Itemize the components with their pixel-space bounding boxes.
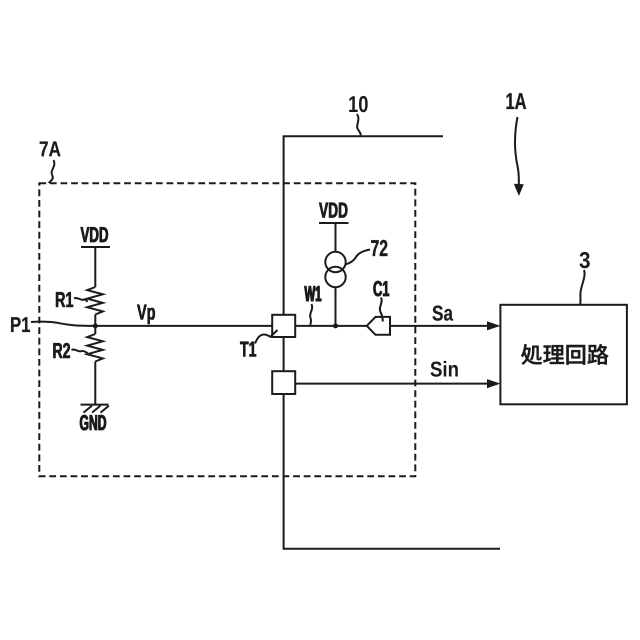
power symbol VDD (left): bar xyxy=(81,246,110,248)
current source 72: lower circle xyxy=(325,267,345,287)
label R1 xyxy=(56,292,73,307)
dashed block boundary 7A xyxy=(39,183,415,476)
ground symbol xyxy=(81,405,110,413)
label 7A xyxy=(40,142,61,157)
comparator C1 (pentagon tag) xyxy=(367,317,390,335)
label 1A xyxy=(507,93,527,109)
contact box (lower) xyxy=(272,371,295,394)
leader line for P1 xyxy=(31,322,95,326)
leader line for 72 xyxy=(346,250,370,265)
label 10 xyxy=(349,96,368,112)
sensor contact box T1 xyxy=(272,315,295,337)
junction dot node Vp xyxy=(93,323,98,328)
leader line for 10 xyxy=(357,114,361,135)
leader line for R2 xyxy=(72,349,88,353)
wire current source to node W1 xyxy=(335,287,337,326)
label VDD (left) xyxy=(81,227,108,242)
resistor R1 xyxy=(87,287,103,315)
label 72 xyxy=(371,240,387,256)
current source 72: upper circle xyxy=(325,252,345,272)
leader line for C1 xyxy=(380,298,383,322)
wire VDD2 to current source 72 xyxy=(335,223,337,252)
leader line for T1 xyxy=(255,330,278,344)
label C1 xyxy=(374,281,390,296)
wire VDD to R1 xyxy=(94,247,96,287)
pointer arrow stem for 1A xyxy=(515,117,519,185)
arrowhead Sin into processing box xyxy=(487,379,500,388)
leader line for 3 xyxy=(580,270,584,305)
label W1 xyxy=(305,286,322,301)
label 3 xyxy=(580,252,590,268)
label Sa xyxy=(433,306,454,321)
arrowhead Sa into processing box xyxy=(487,321,500,330)
label T1 xyxy=(240,342,256,357)
label VDD (right) xyxy=(319,203,347,218)
label Vp xyxy=(137,305,155,324)
resistor R2 xyxy=(87,334,103,362)
junction dot node W1 xyxy=(333,323,338,328)
wire R2 to ground xyxy=(94,362,96,405)
label 処理回路 (processing circuit text) xyxy=(521,344,608,365)
leader line for 7A xyxy=(49,160,55,183)
wire node Vp to processing (main Sa run) xyxy=(95,325,487,327)
leader line for W1 xyxy=(310,304,312,325)
label Sin xyxy=(431,361,458,377)
label GND xyxy=(80,415,106,430)
wire bus 10: top horizontal, vertical trunk, bottom horizontal xyxy=(284,136,500,549)
power symbol VDD (right): bar xyxy=(319,222,349,224)
processing circuit box 3 xyxy=(500,305,627,405)
arrowhead of 1A pointer xyxy=(514,184,524,196)
wire Sin run xyxy=(295,383,487,385)
wire R1 to node Vp xyxy=(94,315,96,335)
leader line for R1 xyxy=(74,298,88,302)
label R2 xyxy=(53,343,70,358)
label P1 xyxy=(11,317,30,332)
